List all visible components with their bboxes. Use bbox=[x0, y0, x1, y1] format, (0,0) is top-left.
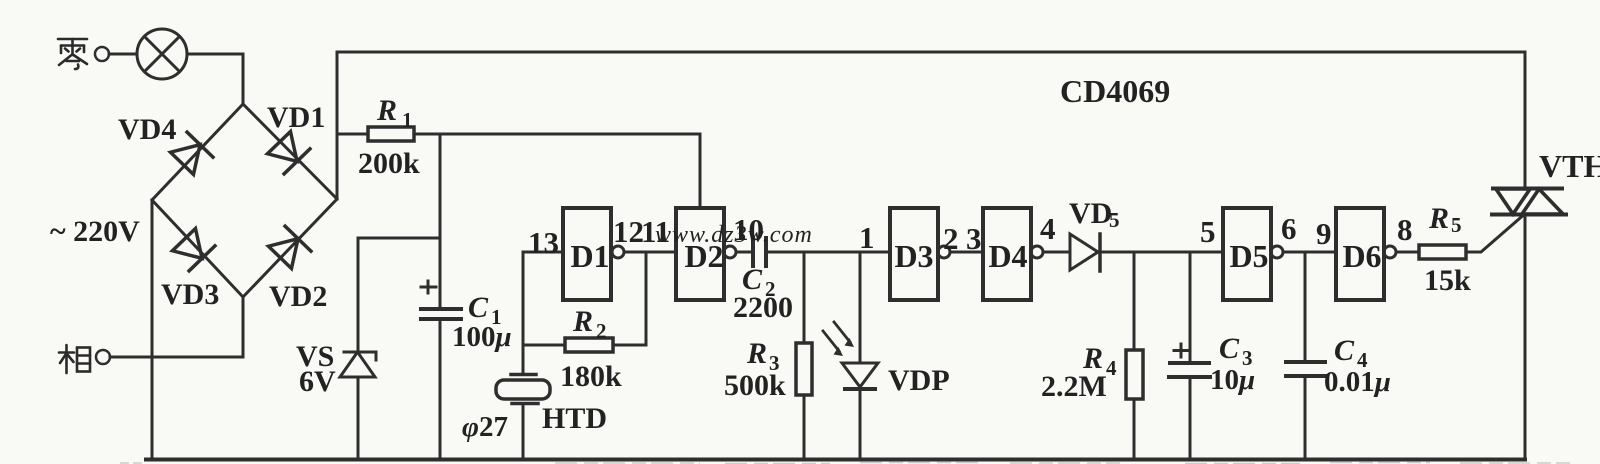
svg-text:D6: D6 bbox=[1342, 238, 1381, 274]
svg-text:VD1: VD1 bbox=[267, 101, 325, 134]
svg-text:5: 5 bbox=[1451, 213, 1462, 237]
svg-text:9: 9 bbox=[1316, 216, 1332, 251]
svg-text:CD4069: CD4069 bbox=[1060, 73, 1170, 109]
svg-text:C: C bbox=[742, 263, 763, 296]
svg-text:0.01μ: 0.01μ bbox=[1324, 366, 1391, 398]
svg-text:3: 3 bbox=[966, 221, 982, 256]
svg-text:φ27: φ27 bbox=[462, 411, 508, 443]
svg-text:2: 2 bbox=[765, 277, 776, 301]
svg-text:D5: D5 bbox=[1229, 238, 1268, 274]
svg-text:www.dz3w.com: www.dz3w.com bbox=[655, 222, 813, 248]
svg-text:5: 5 bbox=[1109, 208, 1120, 232]
svg-text:R: R bbox=[746, 337, 767, 370]
svg-text:~ 220V: ~ 220V bbox=[50, 215, 140, 248]
svg-text:8: 8 bbox=[1397, 212, 1413, 247]
svg-text:R: R bbox=[572, 305, 593, 338]
svg-text:VD2: VD2 bbox=[269, 280, 327, 313]
svg-text:VD4: VD4 bbox=[118, 113, 176, 146]
svg-text:R: R bbox=[1082, 342, 1103, 375]
svg-text:C: C bbox=[1334, 334, 1355, 367]
svg-text:15k: 15k bbox=[1424, 264, 1471, 297]
svg-text:VD: VD bbox=[1069, 197, 1112, 230]
svg-text:2: 2 bbox=[943, 221, 959, 256]
svg-text:D4: D4 bbox=[988, 238, 1027, 274]
svg-text:D1: D1 bbox=[570, 238, 609, 274]
svg-text:4: 4 bbox=[1040, 211, 1056, 246]
svg-text:VD3: VD3 bbox=[161, 278, 219, 311]
svg-text:13: 13 bbox=[528, 225, 559, 260]
svg-text:5: 5 bbox=[1200, 214, 1216, 249]
svg-text:R: R bbox=[1428, 202, 1449, 235]
svg-text:10μ: 10μ bbox=[1210, 364, 1255, 396]
svg-text:6V: 6V bbox=[299, 365, 336, 398]
svg-text:C: C bbox=[468, 291, 489, 324]
svg-text:HTD: HTD bbox=[542, 402, 607, 435]
svg-text:6: 6 bbox=[1281, 211, 1297, 246]
svg-text:VDP: VDP bbox=[888, 364, 950, 397]
svg-text:C: C bbox=[1219, 332, 1240, 365]
svg-text:12: 12 bbox=[613, 214, 644, 249]
svg-text:4: 4 bbox=[1106, 356, 1117, 380]
svg-text:VTH: VTH bbox=[1539, 148, 1600, 184]
svg-text:D3: D3 bbox=[894, 238, 933, 274]
svg-text:100μ: 100μ bbox=[452, 321, 512, 353]
svg-text:3: 3 bbox=[769, 351, 780, 375]
svg-text:2: 2 bbox=[596, 319, 607, 343]
svg-text:180k: 180k bbox=[560, 360, 622, 393]
svg-text:1: 1 bbox=[859, 220, 875, 255]
svg-text:R: R bbox=[376, 94, 397, 127]
svg-text:1: 1 bbox=[402, 108, 413, 132]
svg-text:200k: 200k bbox=[358, 147, 420, 180]
